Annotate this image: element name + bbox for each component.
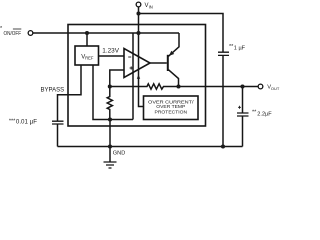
svg-text:OUT: OUT: [271, 86, 280, 91]
svg-text:1 µF: 1 µF: [234, 46, 246, 52]
svg-text:1.23V: 1.23V: [102, 48, 119, 55]
svg-text:GND: GND: [113, 150, 125, 156]
svg-text:BYPASS: BYPASS: [41, 86, 65, 93]
svg-text:ON/OFF: ON/OFF: [4, 31, 22, 37]
svg-text:REF: REF: [85, 55, 94, 60]
svg-text:2.2µF: 2.2µF: [257, 112, 272, 118]
svg-text:IN: IN: [149, 5, 153, 10]
svg-text:0.01 µF: 0.01 µF: [16, 119, 37, 126]
svg-text:PROTECTION: PROTECTION: [155, 109, 188, 114]
svg-text:OVER TEMP: OVER TEMP: [156, 104, 185, 109]
